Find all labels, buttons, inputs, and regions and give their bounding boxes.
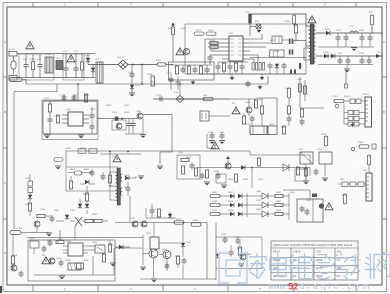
wire standby hv feed — [57, 83, 197, 85]
svg-text:D601: D601 — [25, 204, 31, 206]
wire box to center block — [115, 247, 143, 249]
op-amp U1 PWM IC — [222, 36, 250, 61]
svg-text:R801: R801 — [276, 192, 282, 194]
wire gate link — [282, 39, 289, 41]
ground GND15 — [46, 233, 52, 236]
wire y155 link — [250, 155, 310, 164]
svg-text:U801: U801 — [290, 192, 296, 194]
diode D10 — [85, 180, 89, 184]
table cell texts — [273, 251, 342, 279]
diode D21 — [241, 165, 245, 169]
capacitor C63 — [126, 186, 131, 193]
pill P7 vertical — [343, 194, 346, 204]
resistor R86 box hatched — [68, 263, 81, 270]
svg-text:LF101: LF101 — [45, 54, 52, 56]
pill P11 — [191, 223, 201, 226]
svg-text:C401: C401 — [208, 132, 214, 134]
wire DC bus to bridge — [88, 64, 119, 66]
resistor R81 — [85, 219, 93, 222]
capacitor C5 bulk — [130, 72, 135, 79]
ground GND7 — [209, 141, 215, 144]
wire br links — [225, 237, 262, 269]
wire x1 riser — [179, 84, 181, 96]
svg-text:C961: C961 — [221, 234, 227, 236]
svg-text:R803: R803 — [276, 210, 282, 212]
resistor R67 — [181, 166, 184, 174]
capacitor C36 — [127, 121, 132, 128]
wire box frame B2 — [177, 155, 200, 179]
resistor R42 — [242, 116, 245, 124]
svg-text:GWPLL(LCD) CHASSIS 715T/P1SN C: GWPLL(LCD) CHASSIS 715T/P1SN CHAQ50 C715… — [273, 243, 352, 247]
resistor R1 discharge — [31, 62, 34, 70]
svg-text:R308: R308 — [147, 74, 153, 76]
resistor R2 — [80, 62, 83, 70]
resistor R40 — [254, 100, 257, 108]
capacitor C80 — [50, 216, 55, 223]
svg-text:R302: R302 — [54, 116, 60, 118]
capacitor C50 — [300, 119, 305, 126]
svg-text:R905: R905 — [108, 245, 114, 247]
resistor R50 — [298, 84, 301, 92]
svg-text:R605: R605 — [83, 194, 89, 196]
ground GND16 — [110, 263, 116, 266]
wire pre-box rail — [27, 237, 143, 239]
wire AC top bus — [22, 53, 95, 55]
table frame — [271, 241, 358, 280]
svg-text:L102: L102 — [56, 58, 62, 60]
capacitor C74 — [314, 169, 319, 176]
capacitor C87 — [236, 238, 241, 245]
diode D1 rectifier — [86, 58, 90, 62]
watermark url — [267, 282, 373, 293]
svg-text:R951: R951 — [175, 256, 181, 258]
capacitor C16 — [228, 64, 233, 71]
svg-text:U402: U402 — [269, 124, 275, 126]
wire HV top to transformer — [249, 14, 251, 24]
ground GND12 — [157, 166, 163, 169]
capacitor C66 — [150, 208, 155, 215]
diode D11 — [28, 195, 32, 199]
wire CX2 leads — [39, 54, 41, 63]
capacitor C82 — [48, 240, 53, 247]
wire RV1 link — [250, 26, 256, 28]
transistor Q25 big — [149, 249, 158, 258]
snubber box outline — [66, 167, 117, 191]
wire sec1 drops — [338, 33, 370, 47]
capacitor C8a — [181, 67, 186, 74]
wire left column drop — [29, 174, 31, 216]
svg-text:Q951: Q951 — [130, 218, 136, 220]
ground GND6 — [140, 135, 146, 138]
resistor R75 — [304, 168, 307, 176]
svg-text:C962: C962 — [235, 237, 241, 239]
pill row2 — [210, 203, 220, 206]
ground GND4 — [44, 135, 50, 138]
diode pair DP1 — [289, 39, 294, 45]
svg-text:P951: P951 — [176, 219, 182, 221]
svg-text:C204: C204 — [337, 53, 343, 55]
capacitor C8b — [193, 67, 198, 74]
svg-text:RM2: RM2 — [84, 260, 89, 262]
svg-text:R110: R110 — [210, 40, 216, 42]
svg-text:R301: R301 — [84, 95, 90, 97]
node j y84a — [141, 83, 143, 85]
opto U9 — [95, 245, 105, 253]
resistor R63 — [69, 181, 72, 189]
resistor R10 — [210, 41, 218, 44]
resistor R52 — [300, 109, 303, 117]
box U5 small — [268, 126, 277, 135]
capacitor C89 — [165, 263, 170, 270]
svg-text:Q401: Q401 — [245, 102, 251, 104]
svg-text:Q804: Q804 — [214, 171, 220, 173]
wire r85 riser — [109, 240, 111, 244]
resistor R75b — [296, 167, 299, 175]
warning triangle W6 — [211, 142, 219, 149]
ground GND21 — [204, 182, 210, 185]
ground GND22 — [221, 185, 227, 188]
wire filter verticals — [66, 54, 82, 78]
svg-text:P503: P503 — [358, 142, 364, 144]
wire fb wires — [230, 99, 262, 126]
resistor R51 — [303, 86, 306, 94]
diode D26 vertical top — [78, 204, 82, 208]
transistor Q3 — [137, 113, 143, 119]
svg-text:C803: C803 — [258, 179, 264, 181]
svg-text:U101: U101 — [228, 33, 234, 35]
ground GND1 — [258, 85, 263, 89]
resistor R65 — [85, 193, 88, 201]
diode D7 — [331, 54, 335, 58]
resistor R31 — [48, 104, 51, 112]
wire u8 to opto — [88, 246, 95, 250]
svg-text:B: B — [4, 110, 6, 114]
wire bottom rail amp — [34, 274, 114, 276]
fuse F1 — [11, 56, 16, 74]
pill P10 — [174, 221, 184, 224]
ground arrow fan — [351, 122, 355, 127]
pill row3 — [210, 212, 220, 215]
svg-text:R603: R603 — [70, 169, 76, 171]
wire box top entries — [34, 240, 58, 254]
node output arrow — [376, 54, 381, 58]
svg-text:AC-IN: AC-IN — [9, 77, 15, 80]
transistor Q20 — [34, 221, 40, 227]
svg-text:Q101: Q101 — [294, 40, 300, 42]
capacitor C61 — [101, 174, 106, 181]
pill row1 — [210, 194, 220, 197]
capacitor C33 — [90, 113, 95, 120]
ground GND17 — [59, 276, 65, 279]
svg-text:R305: R305 — [106, 105, 112, 107]
transistor Q15 — [283, 164, 289, 171]
transistor Q27 — [240, 254, 246, 260]
wire secondary rail lower — [316, 55, 384, 57]
svg-text:D103: D103 — [135, 85, 141, 87]
capacitor C17 — [240, 64, 245, 71]
capacitor C60 — [90, 170, 95, 177]
svg-text:STD: STD — [316, 251, 321, 254]
resistor R73 — [194, 168, 197, 176]
svg-text:D201: D201 — [325, 29, 331, 31]
wire sub-block internals — [171, 65, 212, 67]
corner scan blob — [0, 286, 2, 293]
wire drop to standby block — [77, 84, 79, 101]
wire secondary rail +B upper — [316, 32, 384, 34]
svg-text:C801: C801 — [306, 200, 312, 202]
svg-text:A: A — [4, 40, 6, 44]
diode D12 — [85, 204, 89, 208]
capacitor C71 — [305, 209, 310, 216]
border zone tick marks left — [3, 77, 7, 219]
svg-text:D202: D202 — [323, 52, 329, 54]
resistor R63b — [108, 175, 111, 183]
wire left column — [43, 101, 50, 134]
svg-text:Q801: Q801 — [256, 191, 262, 193]
node arrow up — [226, 156, 230, 168]
resistor R64 — [28, 203, 31, 211]
capacitor C43 — [250, 116, 255, 123]
svg-text:P501: P501 — [333, 96, 339, 98]
wire x93 drop — [92, 256, 94, 275]
capacitor C85 — [182, 258, 187, 265]
svg-text:U902: U902 — [92, 242, 98, 244]
capacitor C23 — [368, 35, 373, 42]
resistor R90 — [102, 254, 105, 262]
capacitor C39 — [169, 77, 174, 84]
wire c5 column — [131, 65, 133, 94]
svg-text:U301: U301 — [66, 109, 72, 111]
resistor R82 — [94, 219, 102, 222]
snubber box SB3 — [270, 50, 285, 57]
capacitor C83 — [59, 260, 64, 267]
svg-text:U951: U951 — [146, 233, 152, 235]
node vref arrow — [257, 30, 261, 33]
watermark glyph 电 — [270, 254, 286, 277]
svg-text:R101: R101 — [30, 59, 36, 61]
warning triangle W3 — [232, 107, 240, 114]
wire bus y229 — [21, 232, 49, 234]
wire standby bottom rail — [43, 133, 97, 135]
wire PWM section box — [185, 24, 306, 74]
svg-text:CON1: CON1 — [9, 49, 16, 51]
diode D6 — [324, 54, 328, 58]
svg-text:CN1: CN1 — [368, 12, 373, 14]
ground GND8 — [219, 141, 225, 144]
inductor L1 common mode choke — [45, 57, 53, 73]
transistor Q21 — [11, 265, 17, 271]
svg-text:CN501: CN501 — [362, 94, 370, 96]
small box SB1 — [30, 241, 39, 248]
svg-text:R701: R701 — [302, 169, 308, 171]
resistor R84 — [56, 240, 64, 243]
capacitor C70 — [300, 206, 305, 213]
connector CN2 header — [365, 97, 372, 127]
ground arrow pwm1 — [230, 74, 234, 80]
small box reg2 — [295, 169, 306, 181]
connector circle pair — [351, 147, 354, 150]
svg-text:C206: C206 — [359, 53, 365, 55]
svg-text:R116: R116 — [285, 21, 291, 23]
IC U7 box — [297, 199, 323, 222]
border zone tick marks bottom — [33, 285, 356, 292]
inductor L4 PFC choke — [96, 62, 103, 83]
transistor Q23 — [132, 221, 138, 227]
svg-text:R108: R108 — [168, 28, 174, 30]
svg-text:R802: R802 — [276, 201, 282, 203]
warning triangle W5 — [42, 257, 50, 264]
diode D3 — [130, 85, 134, 89]
capacitor C21 — [344, 35, 349, 42]
pill P0a — [194, 32, 204, 35]
shunt U4 TL431 box — [250, 126, 267, 135]
svg-text:C113: C113 — [274, 51, 280, 53]
wire CN1 lead — [371, 25, 373, 33]
node sb junction — [77, 83, 79, 85]
resistor bar group RB1 — [252, 63, 265, 71]
wire T2 primary feeds — [110, 152, 116, 201]
capacitor C72 — [200, 173, 205, 180]
resistor R87 box — [77, 263, 84, 269]
resistor R18 — [234, 63, 237, 71]
svg-text:R903: R903 — [58, 239, 64, 241]
transistor Q13 — [319, 203, 324, 208]
transformer T1 — [309, 24, 316, 64]
inductor L2 choke — [56, 61, 63, 70]
diode D2 rectifier — [91, 68, 95, 72]
transistor arrow Q12 — [262, 211, 268, 217]
wire center verticals — [143, 223, 183, 280]
ground GND3 — [346, 65, 348, 70]
svg-text:R902: R902 — [92, 214, 98, 216]
svg-text:C601: C601 — [124, 187, 130, 189]
capacitor C41 series — [160, 97, 162, 102]
wire R1 leads — [32, 54, 34, 62]
wire ac-in link — [22, 80, 57, 85]
resistor R16 sense vertical — [294, 25, 297, 33]
svg-text:CN2: CN2 — [203, 95, 208, 97]
resistor R8b — [187, 66, 190, 74]
resistor R72 — [275, 212, 283, 215]
diode D15 — [230, 194, 234, 198]
wire support ground rail — [197, 73, 306, 75]
wire standby top rail — [43, 100, 97, 102]
filter stage box 2 — [63, 54, 84, 80]
wire sec vertical x346 — [345, 70, 348, 88]
ground GND20 — [238, 264, 244, 267]
svg-text:D802: D802 — [228, 192, 234, 194]
resistor R8a — [175, 66, 178, 74]
connector AC-IN pill — [9, 78, 22, 82]
diode D28 — [216, 254, 220, 258]
svg-text:D602: D602 — [124, 175, 130, 177]
watermark glyph 料 — [351, 253, 376, 278]
wire left feeds — [300, 77, 324, 108]
transistor Q2 — [184, 49, 190, 55]
capacitor C27 — [367, 58, 372, 65]
wire main net y167.5 — [197, 167, 296, 169]
resistor R60 series on bus — [78, 149, 86, 153]
capacitor CX1 — [24, 62, 29, 69]
svg-text:Q601: Q601 — [178, 152, 184, 154]
wire link rails top — [100, 151, 141, 154]
connector C-IN pill — [54, 158, 63, 162]
wire T1 aux winding — [304, 48, 309, 60]
svg-text:R401: R401 — [258, 99, 264, 101]
resistor R62 — [75, 171, 82, 175]
svg-text:C310: C310 — [156, 95, 162, 97]
ground arrow pwm2 — [260, 74, 264, 80]
resistor chain RN3 — [342, 182, 364, 187]
capacitor C32 — [48, 117, 53, 124]
resistor R11 — [210, 45, 218, 48]
box B3 — [300, 152, 313, 164]
wire feed x13 column — [12, 238, 14, 270]
svg-text:R113: R113 — [270, 40, 276, 42]
wire U1 left pin feeds — [205, 39, 222, 65]
wire rail B — [160, 139, 172, 164]
resistor R15 upper — [293, 15, 296, 26]
node dot T2 — [109, 185, 111, 187]
vertical pill P8 — [367, 155, 370, 165]
dark mark pair — [290, 63, 301, 74]
transistor Q22 — [49, 258, 55, 264]
wire row2 — [220, 204, 289, 206]
transformer T2 — [116, 168, 123, 205]
resistor R68 — [157, 209, 160, 217]
connector CN3 header — [366, 173, 372, 201]
connector J1 AC line terminal — [9, 52, 22, 57]
svg-text:U901: U901 — [66, 241, 72, 243]
pill P5 vertical — [324, 136, 327, 146]
svg-text:C202: C202 — [359, 30, 365, 32]
svg-text:P502: P502 — [321, 134, 327, 136]
wire y151 extension — [141, 150, 250, 152]
ground GND19 — [151, 279, 157, 282]
svg-text:R606: R606 — [186, 157, 192, 159]
svg-text:R961: R961 — [237, 248, 243, 250]
wire d13 out — [129, 176, 136, 178]
svg-text:APPR: APPR — [316, 259, 323, 262]
diode D25 — [65, 215, 69, 219]
svg-text:C901: C901 — [46, 240, 52, 242]
capacitor C30 — [62, 95, 67, 102]
warning triangle W4 — [113, 155, 121, 162]
svg-text:RN7: RN7 — [340, 179, 345, 181]
svg-text:D803: D803 — [212, 201, 218, 203]
node j2 — [109, 151, 111, 153]
resistor R71 — [275, 203, 283, 206]
svg-text:D951: D951 — [186, 242, 192, 244]
diode D5 — [326, 31, 330, 35]
wire row vertical joins — [247, 193, 289, 220]
transistor Q24 — [141, 221, 147, 227]
diode D31 dark — [312, 194, 317, 198]
wire vert rail x277 — [276, 98, 278, 126]
svg-text:R604: R604 — [84, 169, 90, 171]
resistor R8 startup pill — [171, 27, 174, 36]
node j bus1 — [132, 64, 134, 66]
watermark glyph 维 — [290, 253, 312, 278]
svg-text:ZD12: ZD12 — [208, 30, 214, 32]
capacitor C46 — [210, 133, 215, 140]
svg-text:PAGE: PAGE — [316, 275, 323, 278]
svg-text:QA: QA — [337, 251, 341, 254]
svg-text:C108: C108 — [180, 28, 186, 30]
varistor X2 crossed — [75, 217, 82, 226]
svg-text:CN7: CN7 — [363, 170, 368, 172]
capacitor C8c — [205, 67, 210, 74]
